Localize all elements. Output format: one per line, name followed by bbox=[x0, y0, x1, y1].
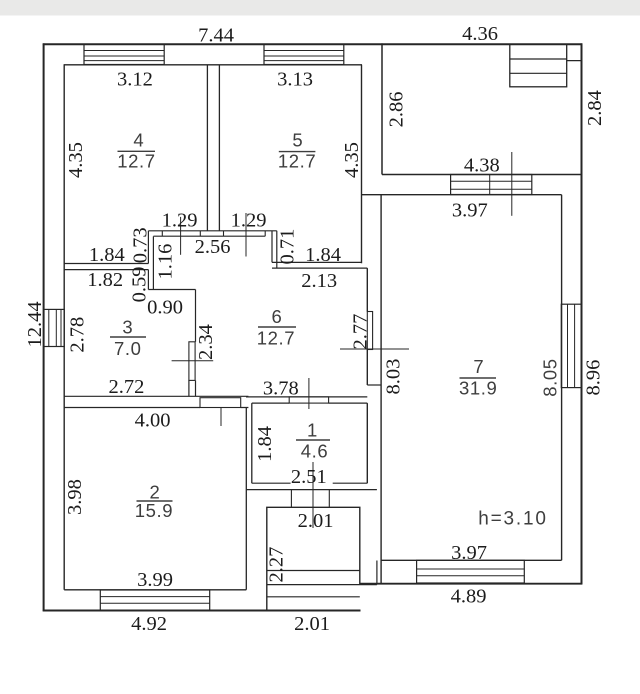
svg-text:31.9: 31.9 bbox=[459, 377, 497, 398]
svg-text:2.13: 2.13 bbox=[301, 270, 337, 292]
svg-text:3: 3 bbox=[122, 317, 133, 338]
svg-text:7.44: 7.44 bbox=[198, 25, 234, 47]
svg-text:3.98: 3.98 bbox=[64, 479, 86, 515]
svg-text:4.6: 4.6 bbox=[301, 441, 329, 462]
window W1 top wall left bbox=[84, 44, 164, 64]
svg-text:2.01: 2.01 bbox=[298, 510, 334, 532]
window W4 in north-east wall (4.38) bbox=[451, 175, 532, 195]
svg-text:2.84: 2.84 bbox=[584, 90, 606, 126]
wire: left exterior wall outer line bbox=[43, 43, 45, 611]
room label 7 / 31.9 bbox=[459, 356, 497, 398]
svg-text:4.92: 4.92 bbox=[131, 613, 167, 635]
svg-text:4.38: 4.38 bbox=[464, 155, 500, 177]
wire: bottom exterior wall outer line right part (room 7) bbox=[360, 583, 583, 585]
svg-text:2.34: 2.34 bbox=[195, 324, 217, 360]
svg-text:4.00: 4.00 bbox=[135, 410, 171, 432]
wall: room 5 east line bbox=[361, 65, 363, 263]
wall: jog west of hall (0.73/1.16) bbox=[148, 231, 153, 290]
svg-text:0.71: 0.71 bbox=[277, 229, 299, 265]
wall: porch right column bbox=[376, 561, 378, 585]
wire: right exterior wall outer line bbox=[581, 43, 583, 584]
svg-text:1.82: 1.82 bbox=[87, 269, 123, 291]
wall: hall east / room 7 west band bbox=[367, 195, 381, 584]
svg-text:12.7: 12.7 bbox=[117, 150, 155, 171]
wire: north-east wall band top line (terrace/room7 border) bbox=[382, 174, 582, 176]
svg-text:0.90: 0.90 bbox=[147, 296, 183, 318]
wall: rooms 3/2 south band with door to room 2 bbox=[64, 396, 248, 407]
window W7 room 2 bottom wall bbox=[100, 590, 209, 610]
wire: jog in hall east wall bbox=[367, 384, 381, 386]
svg-text:3.99: 3.99 bbox=[137, 569, 173, 591]
svg-text:7: 7 bbox=[473, 356, 484, 377]
room label 1 / 4.6 bbox=[296, 420, 330, 462]
svg-text:1.84: 1.84 bbox=[254, 426, 276, 462]
tick: dimension extension line at 1.29 right bbox=[245, 213, 247, 257]
wall: 0.90 segment north of room 3 bbox=[148, 289, 195, 291]
svg-text:7.0: 7.0 bbox=[114, 338, 142, 359]
wire: bottom-left exterior wall inner line bbox=[64, 589, 246, 591]
svg-text:8.03: 8.03 bbox=[383, 359, 405, 395]
room label 5 / 12.7 bbox=[278, 129, 316, 171]
svg-text:2.78: 2.78 bbox=[66, 317, 88, 353]
window W3 left wall bbox=[44, 309, 65, 346]
svg-text:8.05: 8.05 bbox=[540, 358, 561, 396]
svg-text:1: 1 bbox=[307, 420, 318, 441]
room label 2 / 15.9 bbox=[135, 482, 173, 521]
scanner gray stripe at top bbox=[0, 0, 640, 16]
wall: south wall of rooms 4/5 with two door openings bbox=[148, 231, 276, 236]
svg-text:3.12: 3.12 bbox=[117, 68, 153, 90]
door: hall to room 1 bbox=[289, 397, 328, 403]
door: hall to room 2 bbox=[200, 398, 241, 408]
wall: room 1 south band with door opening bbox=[246, 483, 377, 489]
svg-text:0.73: 0.73 bbox=[130, 227, 152, 263]
wire: top exterior wall outer line bbox=[43, 43, 583, 45]
svg-text:3.13: 3.13 bbox=[277, 69, 313, 91]
svg-text:1.84: 1.84 bbox=[305, 244, 341, 266]
svg-text:8.96: 8.96 bbox=[583, 360, 605, 396]
svg-text:2.01: 2.01 bbox=[294, 613, 330, 635]
wire: terrace west wall bbox=[381, 43, 383, 174]
svg-text:1.16: 1.16 bbox=[155, 244, 177, 280]
wire: left exterior wall inner line bbox=[63, 64, 65, 590]
tick: dimension line at room 3 door (2.34) bbox=[172, 360, 214, 362]
wall: room 1 north band with door bbox=[246, 397, 367, 403]
svg-text:12.7: 12.7 bbox=[278, 151, 316, 172]
wall: hall north band (room 5 south, 2.13) bbox=[272, 262, 367, 268]
wall: jog south-west of room 5 (0.71) bbox=[272, 231, 277, 268]
window W6 room 7 bottom wall bbox=[417, 560, 525, 583]
wall: porch outline bbox=[267, 507, 360, 610]
wire: room 7 bottom wall inner line bbox=[381, 559, 562, 561]
svg-text:h=3.10: h=3.10 bbox=[478, 509, 547, 530]
wall: divider between rooms 4 and 5 bbox=[207, 65, 219, 231]
svg-text:4.89: 4.89 bbox=[451, 586, 487, 608]
svg-text:1.29: 1.29 bbox=[162, 210, 198, 232]
svg-text:6: 6 bbox=[272, 306, 283, 327]
door: threshold from room 1 corridor to porch bbox=[291, 490, 329, 508]
wall: room 3 east / hall west bbox=[189, 290, 196, 397]
svg-text:15.9: 15.9 bbox=[135, 500, 173, 521]
svg-text:2.86: 2.86 bbox=[386, 91, 408, 127]
stairs: entrance steps top-right terrace bbox=[510, 44, 582, 87]
svg-text:4.36: 4.36 bbox=[462, 23, 498, 45]
svg-text:2.77: 2.77 bbox=[350, 314, 372, 350]
window W5 right wall (room 7 east) bbox=[561, 304, 582, 387]
tick: dimension line at hall east door (2.77/8.03) bbox=[340, 348, 409, 350]
svg-text:1.29: 1.29 bbox=[231, 210, 267, 232]
tick: dimension extension near 4.00 bbox=[220, 408, 222, 427]
window W2 top wall middle bbox=[264, 44, 344, 64]
wire: north-east wall band bottom line bbox=[362, 194, 562, 196]
wall: room 2 east / room 1 west bbox=[246, 403, 252, 590]
svg-text:2.51: 2.51 bbox=[291, 466, 327, 488]
room label 4 / 12.7 bbox=[117, 130, 155, 172]
door: hall to room 7 bbox=[367, 312, 372, 350]
tick: dimension extension line at 4.38 window bbox=[511, 152, 513, 216]
svg-text:4: 4 bbox=[133, 130, 144, 151]
stairs: porch steps bbox=[267, 571, 377, 597]
svg-text:2.72: 2.72 bbox=[108, 376, 144, 398]
svg-text:5: 5 bbox=[292, 129, 303, 150]
wire: top exterior wall inner line bbox=[64, 64, 362, 66]
wall: band south of room 4 strip (1.84/1.82) bbox=[64, 264, 148, 270]
svg-text:3.97: 3.97 bbox=[451, 542, 487, 564]
room label 3 / 7.0 bbox=[110, 317, 146, 360]
tick: dimension extension line at 1.29 left bbox=[180, 217, 182, 255]
svg-text:1.84: 1.84 bbox=[89, 244, 125, 266]
svg-text:2.56: 2.56 bbox=[195, 236, 231, 258]
tick: dimension extension through 2.51/2.01 bbox=[312, 462, 314, 528]
svg-text:12.7: 12.7 bbox=[257, 327, 295, 348]
svg-text:3.78: 3.78 bbox=[263, 378, 299, 400]
wire: right exterior wall inner line (room 7 east) bbox=[561, 195, 563, 561]
svg-text:2.27: 2.27 bbox=[266, 547, 288, 583]
svg-text:4.35: 4.35 bbox=[341, 142, 363, 178]
door: room 3 to hall bbox=[189, 342, 195, 381]
svg-text:3.97: 3.97 bbox=[452, 200, 488, 222]
svg-text:12.44: 12.44 bbox=[24, 301, 46, 347]
wire: bottom exterior wall outer line left part bbox=[43, 610, 361, 612]
tick: dimension extension near 3.78 bbox=[308, 378, 310, 409]
room label 6 / 12.7 bbox=[257, 306, 296, 349]
svg-text:4.35: 4.35 bbox=[65, 142, 87, 178]
